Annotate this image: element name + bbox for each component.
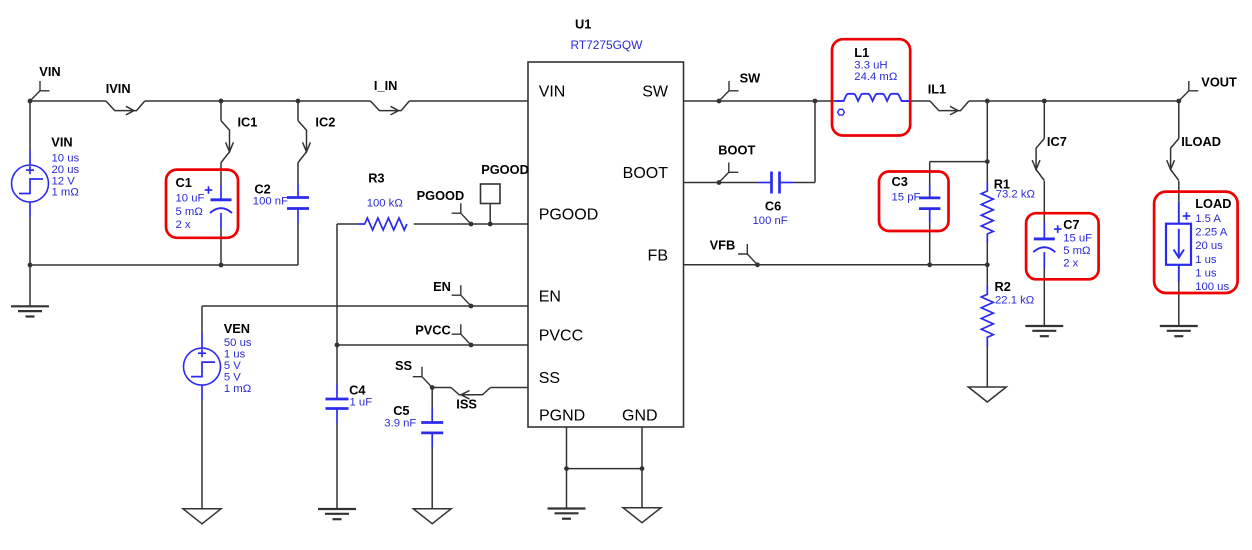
svg-text:20 us: 20 us <box>1195 240 1223 252</box>
svg-text:SS: SS <box>539 370 560 387</box>
svg-text:VOUT: VOUT <box>1201 75 1237 90</box>
svg-text:1 us: 1 us <box>1195 267 1217 279</box>
svg-text:15 pF: 15 pF <box>892 191 921 203</box>
svg-text:100 kΩ: 100 kΩ <box>367 198 403 210</box>
svg-text:PGND: PGND <box>539 408 585 425</box>
svg-text:C3: C3 <box>892 174 908 189</box>
svg-text:C1: C1 <box>176 175 192 190</box>
svg-text:15 uF: 15 uF <box>1063 233 1092 245</box>
svg-text:1 uF: 1 uF <box>350 397 373 409</box>
svg-text:LOAD: LOAD <box>1195 196 1231 211</box>
svg-text:IC2: IC2 <box>315 114 335 129</box>
svg-text:2.25 A: 2.25 A <box>1195 227 1228 239</box>
svg-text:C5: C5 <box>393 403 409 418</box>
svg-text:PVCC: PVCC <box>539 328 583 345</box>
svg-text:EN: EN <box>433 279 451 294</box>
svg-text:PVCC: PVCC <box>415 323 451 338</box>
svg-text:SS: SS <box>395 358 413 373</box>
svg-text:10 uF: 10 uF <box>176 193 205 205</box>
svg-text:5 mΩ: 5 mΩ <box>1063 245 1090 257</box>
svg-text:5 V: 5 V <box>224 360 241 372</box>
svg-text:3.3 uH: 3.3 uH <box>854 60 887 72</box>
svg-text:10 us: 10 us <box>52 153 80 165</box>
svg-text:1.5 A: 1.5 A <box>1195 213 1221 225</box>
svg-text:U1: U1 <box>575 17 591 32</box>
svg-text:SW: SW <box>740 71 762 86</box>
svg-text:SW: SW <box>642 84 669 101</box>
svg-text:I_IN: I_IN <box>374 78 397 93</box>
svg-text:100 nF: 100 nF <box>753 215 788 227</box>
svg-text:IC1: IC1 <box>238 114 258 129</box>
svg-text:5 mΩ: 5 mΩ <box>176 206 203 218</box>
svg-text:PGOOD: PGOOD <box>539 206 599 223</box>
svg-text:R2: R2 <box>995 279 1011 294</box>
svg-text:100 nF: 100 nF <box>253 195 288 207</box>
svg-text:50 us: 50 us <box>224 337 252 349</box>
svg-text:2 x: 2 x <box>176 219 191 231</box>
svg-text:2 x: 2 x <box>1063 258 1078 270</box>
svg-text:ILOAD: ILOAD <box>1181 134 1221 149</box>
svg-text:C7: C7 <box>1063 217 1079 232</box>
svg-text:1 us: 1 us <box>1195 254 1217 266</box>
svg-text:73.2 kΩ: 73.2 kΩ <box>996 188 1035 200</box>
svg-text:1 mΩ: 1 mΩ <box>224 383 251 395</box>
svg-text:20 us: 20 us <box>52 164 80 176</box>
svg-text:1 mΩ: 1 mΩ <box>52 187 79 199</box>
svg-text:C6: C6 <box>765 199 781 214</box>
svg-text:VIN: VIN <box>39 64 60 79</box>
svg-text:BOOT: BOOT <box>718 143 755 158</box>
svg-text:VIN: VIN <box>539 84 566 101</box>
svg-text:5 V: 5 V <box>224 371 241 383</box>
svg-text:22.1 kΩ: 22.1 kΩ <box>995 295 1034 307</box>
svg-text:PGOOD: PGOOD <box>481 162 529 177</box>
svg-text:IVIN: IVIN <box>106 81 131 96</box>
svg-text:ISS: ISS <box>456 397 477 412</box>
svg-text:3.9 nF: 3.9 nF <box>384 418 416 430</box>
svg-text:100 us: 100 us <box>1195 281 1229 293</box>
svg-text:GND: GND <box>622 408 658 425</box>
svg-text:L1: L1 <box>854 45 869 60</box>
svg-text:BOOT: BOOT <box>623 165 669 182</box>
svg-text:1 us: 1 us <box>224 349 246 361</box>
svg-text:VEN: VEN <box>224 321 250 336</box>
svg-text:VFB: VFB <box>710 238 736 253</box>
svg-text:PGOOD: PGOOD <box>417 188 465 203</box>
svg-text:VIN: VIN <box>51 134 72 149</box>
svg-text:FB: FB <box>648 247 668 264</box>
svg-text:C2: C2 <box>254 182 270 197</box>
svg-text:IL1: IL1 <box>928 81 947 96</box>
svg-text:RT7275GQW: RT7275GQW <box>571 38 644 52</box>
svg-text:C4: C4 <box>349 383 366 398</box>
svg-text:R3: R3 <box>368 171 384 186</box>
svg-text:12 V: 12 V <box>52 175 76 187</box>
svg-text:IC7: IC7 <box>1047 134 1067 149</box>
svg-text:24.4 mΩ: 24.4 mΩ <box>854 71 897 83</box>
svg-text:EN: EN <box>539 289 561 306</box>
